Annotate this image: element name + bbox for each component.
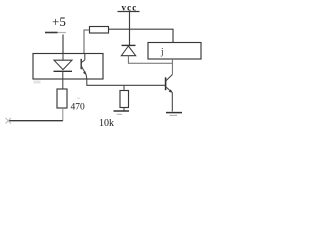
opto phototransistor emitter (82, 67, 87, 75)
wire R1 right to vcc node (109, 28, 130, 30)
wire relay bottom to transistor collector (171, 59, 173, 75)
opto LED wire top (62, 54, 64, 61)
transistor Q1 base bar (165, 77, 167, 90)
resistor R3 10k stub (123, 85, 125, 90)
wire vcc node to relay top (130, 29, 174, 42)
ground G2 bar (166, 112, 182, 114)
opto LED triangle (54, 60, 72, 69)
svg-text:+5: +5 (52, 14, 66, 29)
ground G1 bar (114, 110, 130, 112)
svg-text:j: j (160, 47, 164, 57)
wire D1 anode to collector node (128, 56, 172, 64)
opto phototransistor base bar (80, 59, 82, 69)
wire input horizontal (8, 120, 63, 122)
resistor R1 (top, pull-up) (90, 27, 109, 34)
opto emitter arrowhead (83, 71, 87, 75)
transistor Q1 emitter (166, 87, 172, 93)
diode D1 triangle (121, 46, 135, 56)
transistor Q1 emitter arrowhead (169, 89, 173, 92)
wire R1 left to opto collector (84, 30, 90, 54)
optocoupler U1 box (33, 54, 103, 80)
wire +5 to optocoupler LED anode (62, 35, 64, 54)
node input x-mark (6, 118, 12, 124)
scan speck above 470 label (77, 98, 80, 100)
wire opto emitter down and right (86, 75, 88, 86)
wire R2 bottom to input terminal (62, 108, 64, 121)
scan smudge near opto box corner (34, 81, 41, 84)
scan speck near 10k label (117, 114, 119, 116)
diode D1 cathode bar (122, 44, 136, 46)
opto phototransistor collector lead (82, 54, 85, 63)
ground G1 lower bar (118, 113, 123, 115)
resistor R2 470 box (57, 89, 67, 108)
wire R3 to ground (123, 108, 125, 111)
svg-text:470: 470 (71, 103, 86, 113)
wire vcc down to diode (129, 12, 131, 45)
transistor Q1 collector (166, 75, 172, 81)
power vcc bar (118, 11, 140, 13)
opto LED cathode bar (54, 70, 73, 72)
relay J1 box (148, 43, 201, 60)
wire emitter node to transistor base (89, 84, 166, 86)
wire Q1 emitter to ground (171, 93, 173, 112)
svg-text:10k: 10k (99, 118, 114, 129)
wire LED cathode to R2 (62, 71, 64, 89)
resistor R3 10k box (120, 91, 129, 108)
ground G2 lower bar (170, 114, 178, 116)
power +5 bar (45, 32, 58, 34)
